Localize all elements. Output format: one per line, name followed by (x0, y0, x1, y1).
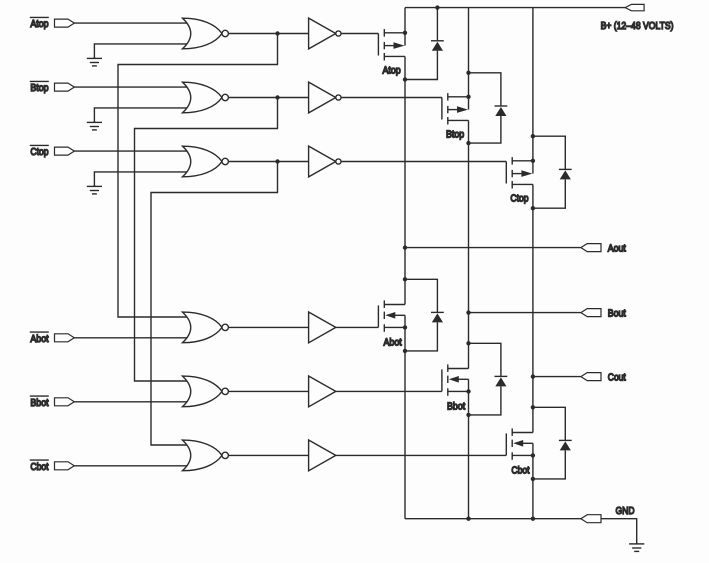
wire NOR Ctop output (228, 161, 308, 163)
svg-text:GND: GND (616, 506, 635, 517)
svg-text:Btop: Btop (446, 129, 464, 140)
svg-text:B+ (12–48 VOLTS): B+ (12–48 VOLTS) (601, 21, 674, 32)
node Btop source (466, 141, 470, 145)
wire Ctop drain to B+ rail (532, 8, 534, 161)
node Cbot diode return (531, 477, 535, 481)
output connector Aout (581, 244, 601, 252)
node Atop NOR output (275, 31, 279, 35)
input label Ctop (overlined) (30, 144, 49, 146)
svg-text:Btop: Btop (30, 83, 48, 94)
svg-text:Bbot: Bbot (30, 398, 48, 409)
transistor Atop (P-channel MOSFET) (377, 34, 379, 56)
node Ctop drain (531, 159, 535, 163)
wire diode Btop anode to source node (469, 116, 501, 143)
wire diode Atop cathode to rail (436, 8, 438, 41)
wire diode Bbot anode return (469, 386, 501, 415)
input connector Bbot (55, 398, 75, 406)
svg-text:Atop: Atop (30, 19, 48, 30)
node Btop diode branch (466, 71, 470, 75)
svg-text:Cbot: Cbot (30, 462, 48, 473)
wire inverter to Btop gate (341, 97, 442, 99)
wire phase A bus (top source to Abot drain) (404, 80, 406, 280)
svg-text:Bbot: Bbot (447, 401, 465, 412)
wire feedback NOR Ctop to NOR Cbot input (151, 162, 278, 446)
diode DAtop (431, 40, 444, 42)
svg-text:Ctop: Ctop (510, 193, 528, 204)
wire diode Atop anode to source node (405, 51, 437, 80)
inverter (Atop) (309, 18, 336, 49)
input label Btop (overlined) (30, 80, 49, 82)
node Bbot drain (466, 341, 470, 345)
svg-text:Cbot: Cbot (511, 465, 529, 476)
node ground rail / phase B (466, 517, 470, 521)
node Ctop diode branch (531, 134, 535, 138)
inverter (Ctop) (309, 146, 336, 177)
input label Bbot (overlined) (30, 395, 49, 397)
node Bout junction (466, 310, 470, 314)
wire NOR Atop output (228, 33, 308, 35)
wire Cbot drain up (532, 407, 534, 432)
wire buffer to Cbot gate (336, 454, 507, 456)
node Bbot diode return (466, 413, 470, 417)
input label Atop (overlined) (30, 16, 49, 18)
NOR gate (Atop) (183, 18, 223, 49)
NOR gate (Btop) (183, 82, 223, 113)
input label Cbot (overlined) (30, 459, 49, 461)
input connector Ctop (55, 147, 75, 155)
wire Cout (533, 376, 581, 378)
wire Bout (469, 312, 581, 314)
wire NOR Cbot output (228, 454, 308, 456)
NOR gate (Abot) (183, 312, 223, 343)
NOR gate (Bbot) (183, 376, 223, 407)
wire Btop source down (468, 120, 470, 143)
node Ctop source (531, 206, 535, 210)
wire Bbot drain up (468, 343, 470, 368)
input connector Btop (55, 83, 75, 91)
wire phase B bus (top source to Bbot drain) (468, 143, 470, 343)
transistor Abot (N-channel MOSFET) (377, 305, 379, 327)
ground (GND) (636, 542, 638, 543)
wire Abot source to ground rail (404, 327, 406, 518)
wire Ctop input to NOR (74, 150, 194, 152)
NOR gate (Ctop) (183, 146, 223, 177)
buffer (Bbot) (309, 376, 336, 407)
input connector Abot (55, 334, 75, 342)
wire Cbot input to NOR (74, 465, 194, 467)
diode DCtop (559, 168, 572, 170)
output connector Bout (581, 309, 601, 317)
wire Atop source down (404, 56, 406, 79)
diode DCbot (559, 439, 572, 441)
wire inverter to Ctop gate (341, 161, 506, 163)
wire diode Ctop branch (533, 136, 565, 169)
wire Ctop source down (532, 184, 534, 208)
input label Abot (overlined) (30, 331, 49, 333)
svg-text:Ctop: Ctop (30, 147, 48, 158)
wire Atop drain to B+ rail (404, 8, 406, 33)
transistor Cbot (N-channel MOSFET) (505, 433, 507, 455)
wire diode Cbot branch (533, 407, 565, 440)
node Bbot source (466, 389, 470, 393)
svg-text:Abot: Abot (384, 337, 402, 348)
wire Cbot source to ground rail (532, 455, 534, 518)
node Abot diode return (403, 349, 407, 353)
svg-text:Cout: Cout (608, 373, 626, 384)
node diode Atop on rail (435, 5, 439, 9)
ground (NOR Ctop input) (93, 185, 95, 186)
B+ rail (405, 7, 625, 9)
ground (NOR Btop input) (93, 121, 95, 122)
inverter (Btop) (309, 82, 336, 113)
wire GND connector to ground (601, 519, 637, 544)
node Ctop NOR output (275, 159, 279, 163)
wire diode Bbot branch (469, 343, 501, 376)
wire diode Abot branch (405, 279, 437, 312)
node Atop source (403, 77, 407, 81)
transistor Bbot (N-channel MOSFET) (441, 369, 443, 391)
wire NOR Bbot output (228, 390, 308, 392)
output connector Cout (581, 373, 601, 381)
diode DAbot (431, 311, 444, 313)
wire Abot drain up (404, 279, 406, 304)
wire NOR Btop second input to ground (94, 108, 194, 122)
buffer (Cbot) (309, 440, 336, 471)
wire inverter to Atop gate (341, 33, 378, 35)
wire Bbot input to NOR (74, 401, 194, 403)
node Aout junction (403, 245, 407, 249)
wire Btop input to NOR (74, 86, 194, 88)
node Btop NOR output (275, 95, 279, 99)
wire diode Cbot anode return (533, 450, 565, 479)
node Abot drain (403, 277, 407, 281)
wire diode Abot anode return (405, 322, 437, 351)
buffer (Abot) (309, 312, 336, 343)
node Cbot source (531, 453, 535, 457)
svg-text:Bout: Bout (608, 309, 626, 320)
ground (NOR Atop input) (93, 57, 95, 58)
node Atop drain (403, 31, 407, 35)
NOR gate (Cbot) (183, 440, 223, 471)
svg-text:Aout: Aout (608, 244, 626, 255)
node Cbot drain (531, 405, 535, 409)
node ground rail / phase C (531, 517, 535, 521)
wire buffer to Bbot gate (336, 390, 442, 392)
wire Abot input to NOR (74, 337, 194, 339)
wire feedback NOR Atop to NOR Abot input (118, 34, 278, 318)
wire NOR Ctop second input to ground (94, 172, 194, 186)
input connector Cbot (55, 462, 75, 470)
node Btop drain (466, 95, 470, 99)
node Cout junction (531, 374, 535, 378)
svg-text:Abot: Abot (30, 334, 48, 345)
svg-text:Atop: Atop (383, 65, 401, 76)
wire buffer to Abot gate (336, 326, 379, 328)
transistor Ctop (P-channel MOSFET) (505, 162, 507, 184)
wire diode Ctop anode to source node (533, 179, 565, 208)
connector GND (581, 515, 601, 523)
ground rail (405, 518, 581, 520)
wire Atop input to NOR (74, 22, 194, 24)
wire NOR Atop second input to ground (94, 44, 194, 58)
wire Btop drain to B+ rail (468, 8, 470, 97)
wire phase C bus (top source to Cbot drain) (532, 208, 534, 407)
wire Aout (405, 247, 581, 249)
diode DBbot (495, 375, 508, 377)
wire feedback NOR Btop to NOR Bbot input (135, 98, 278, 382)
input connector Atop (55, 19, 75, 27)
diode DBtop (495, 105, 508, 107)
wire Bbot source to ground rail (468, 391, 470, 518)
wire NOR Abot output (228, 326, 308, 328)
wire NOR Btop output (228, 97, 308, 99)
transistor Btop (P-channel MOSFET) (441, 98, 443, 120)
connector B+ (625, 4, 644, 10)
wire diode Btop branch (469, 73, 501, 106)
node Abot source (403, 325, 407, 329)
